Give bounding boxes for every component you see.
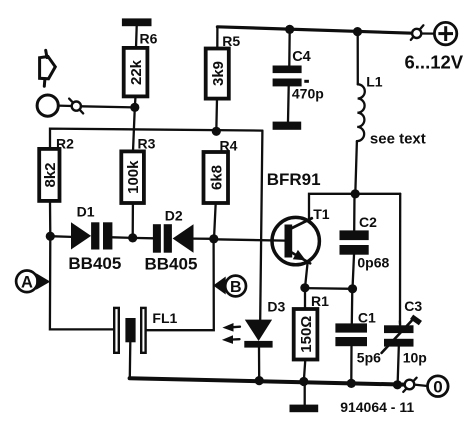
svg-text:3k9: 3k9: [210, 61, 227, 86]
svg-text:R3: R3: [138, 136, 156, 152]
node junction C2 bottom C1 top: [348, 284, 357, 293]
resistor R4 6k8: [204, 138, 238, 239]
resistor R2 8k2: [39, 136, 74, 237]
svg-text:FL1: FL1: [152, 310, 177, 326]
wire bias rail y130 R2 to D3 column: [50, 129, 262, 149]
svg-text:100k: 100k: [125, 160, 142, 194]
varicap diode D2 BB405: [133, 207, 214, 273]
plus supply terminal circle: [405, 22, 464, 72]
resistor R6 22k: [124, 31, 158, 108]
wire A column down to FL1: [50, 236, 113, 329]
svg-text:8k2: 8k2: [42, 162, 59, 187]
ceramic filter FL1: [114, 308, 177, 378]
wire base from node B to T1: [214, 239, 285, 240]
svg-text:150Ω: 150Ω: [298, 316, 315, 353]
wire D3 column from bias rail down: [260, 131, 262, 320]
node junction R1 ground rail: [299, 377, 308, 386]
supply connector small circle with slash: [411, 25, 435, 40]
node junction C3 ground rail: [393, 380, 402, 389]
node A symbol: [16, 271, 50, 293]
resistor R5 3k9: [206, 27, 241, 132]
svg-text:see text: see text: [370, 131, 426, 148]
svg-text:6...12V: 6...12V: [405, 52, 464, 73]
capacitor C4 470p: [273, 30, 324, 130]
svg-text:A: A: [21, 273, 33, 291]
varicap diode D1 BB405: [50, 203, 132, 273]
svg-text:BB405: BB405: [68, 254, 121, 273]
wire collector rail T1 to L1 to C3: [309, 194, 400, 222]
node junction R6/R3/input: [130, 103, 139, 152]
svg-text:6k8: 6k8: [208, 165, 225, 190]
wire C3 column from collector rail: [399, 194, 402, 324]
svg-text:BB405: BB405: [145, 255, 198, 274]
supply bar above R6: [122, 18, 152, 48]
svg-text:10p: 10p: [403, 350, 427, 366]
node junction A dot on left column: [46, 232, 55, 241]
capacitor C2 0p68: [340, 194, 390, 289]
svg-text:0: 0: [433, 378, 442, 397]
node junction R5/R4/bias rail: [212, 127, 221, 136]
input connector small circle with slash: [69, 99, 135, 114]
svg-text:D3: D3: [267, 299, 285, 315]
wire bottom ground rail: [130, 378, 405, 384]
ground symbol below R1: [290, 384, 319, 412]
svg-text:R5: R5: [222, 33, 240, 49]
caption 914064-11: [340, 399, 414, 415]
node B symbol: [213, 276, 246, 297]
svg-text:C3: C3: [404, 298, 422, 314]
resistor R1 150ohm: [294, 288, 329, 382]
svg-text:C1: C1: [358, 309, 376, 325]
node junction D2/R4/B/base: [209, 234, 218, 243]
svg-text:BFR91: BFR91: [267, 170, 321, 189]
svg-text:22k: 22k: [128, 59, 145, 85]
capacitor C1 5p6: [335, 289, 381, 384]
inductor L1: [355, 32, 425, 194]
svg-text:D1: D1: [77, 203, 95, 219]
svg-text:5p6: 5p6: [357, 350, 381, 366]
node junction C4 top rail: [285, 25, 294, 34]
svg-text:R4: R4: [220, 138, 238, 154]
resistor R3 100k: [121, 136, 155, 238]
svg-text:L1: L1: [366, 74, 383, 90]
svg-text:C2: C2: [359, 214, 377, 230]
svg-text:914064 - 11: 914064 - 11: [340, 399, 414, 415]
input terminal circle: [37, 95, 72, 116]
led D3: [244, 299, 285, 381]
node junction D3 ground rail: [255, 376, 264, 385]
trimmer capacitor C3 10p: [382, 298, 427, 385]
svg-text:R2: R2: [56, 136, 74, 152]
svg-text:R1: R1: [311, 293, 329, 309]
svg-text:D2: D2: [165, 207, 183, 223]
wire top rail from R5 to +terminal: [217, 27, 412, 33]
node junction C1 ground rail: [347, 379, 356, 388]
svg-text:R6: R6: [140, 31, 158, 47]
output 0V terminal circle: [428, 376, 449, 397]
node junction emitter R1: [300, 283, 352, 292]
output connector small circle with slash: [403, 378, 427, 392]
node junction L1 bottom collector: [351, 189, 360, 198]
led D3 emission arrows: [222, 323, 240, 344]
wire B column FL1 right to D2 node: [147, 239, 214, 330]
svg-text:B: B: [230, 279, 242, 296]
input block arrow symbol: [40, 50, 56, 86]
svg-text:0p68: 0p68: [357, 255, 389, 271]
svg-text:T1: T1: [313, 206, 330, 222]
node junction D1/D2/R3: [128, 233, 137, 242]
node junction L1 top rail: [353, 27, 362, 36]
svg-text:470p: 470p: [292, 86, 324, 102]
svg-text:C4: C4: [292, 49, 311, 65]
transistor T1 BFR91: [267, 170, 330, 288]
